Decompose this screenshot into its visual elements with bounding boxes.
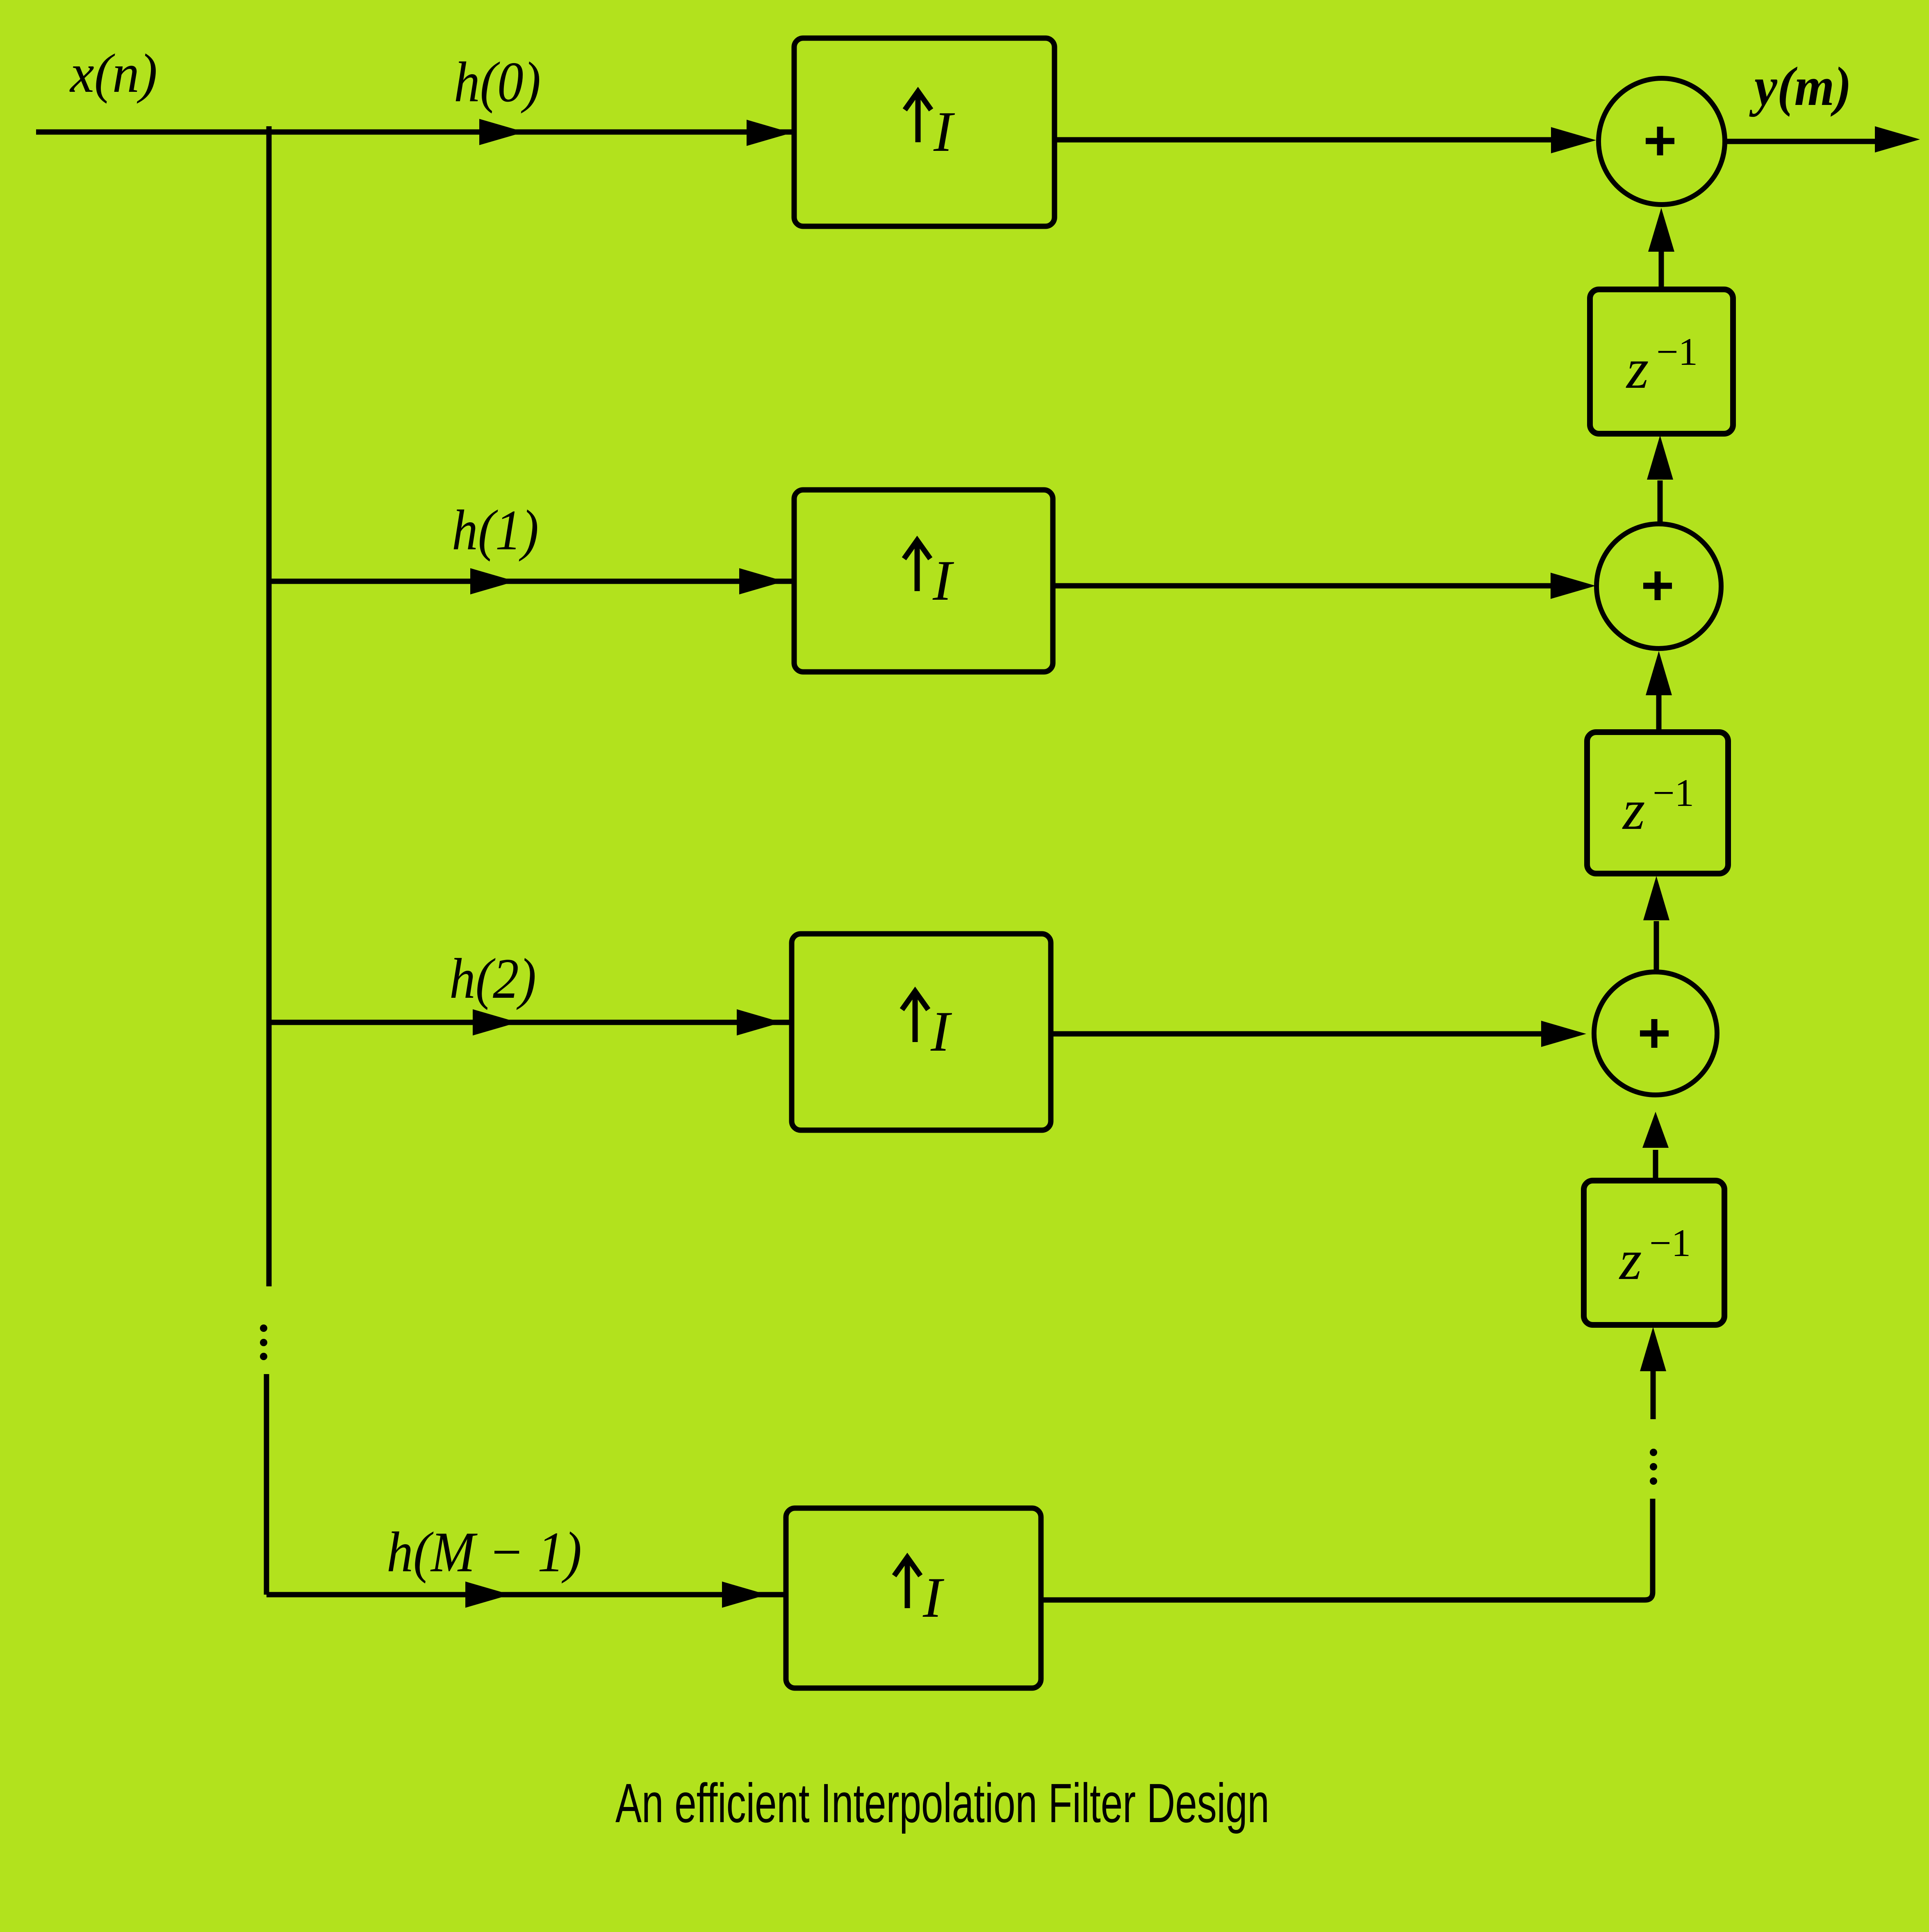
wire arrowhead into S3 bottom [1642, 1112, 1669, 1148]
node branch junction [266, 126, 272, 135]
wire row2 output [1051, 1031, 1542, 1037]
wire arrow z1 to S1 [1659, 251, 1664, 289]
svg-text:z: z [1622, 778, 1645, 842]
summer S2 [1596, 524, 1721, 649]
wire arrow S2 to z1 [1658, 480, 1663, 524]
svg-text:z: z [1626, 337, 1649, 401]
svg-text:I: I [932, 549, 954, 612]
wire row4 input [266, 1592, 786, 1597]
wire bottom right corner [1041, 1499, 1653, 1600]
wire arrowhead into z1 bottom [1647, 435, 1673, 480]
wire left branch vertical lower [264, 1374, 269, 1595]
wire row1 arrowhead at box [739, 568, 784, 594]
wire row2 arrowhead at box [737, 1009, 782, 1035]
summer S1 [1599, 78, 1725, 205]
wire arrowhead into sum S3 [1541, 1021, 1586, 1047]
wire left branch vertical upper [266, 132, 272, 1286]
wire row0 arrowhead at box [747, 120, 792, 146]
wire arrow S3 to z2 [1654, 921, 1659, 972]
summer S2 plus sign [1643, 571, 1672, 600]
svg-text:x(n): x(n) [69, 43, 157, 104]
svg-text:y(m): y(m) [1749, 56, 1852, 117]
upsampler block I2 [794, 490, 1053, 672]
node left ellipsis dots [260, 1324, 267, 1332]
wire arrowhead into sum S1 [1551, 127, 1596, 153]
wire row1 arrowhead mid [470, 568, 515, 594]
wire arrow z2 to S2 [1656, 694, 1662, 732]
svg-text:−1: −1 [1656, 330, 1698, 373]
summer S3 plus sign [1640, 1019, 1669, 1048]
svg-text:h(M − 1): h(M − 1) [387, 1520, 582, 1584]
svg-text:I: I [930, 1000, 952, 1063]
wire row0 output [1054, 137, 1554, 143]
delay block Z2 [1587, 732, 1728, 874]
wire row4 arrowhead mid [465, 1582, 510, 1608]
wire row2 input [269, 1020, 792, 1025]
wire row2 arrowhead mid [473, 1009, 518, 1035]
wire row4 arrowhead at box [722, 1582, 767, 1608]
wire arrowhead into S1 bottom [1648, 208, 1674, 252]
wire arrow z3 to S3 [1653, 1150, 1658, 1181]
wire arrowhead into z3 bottom [1640, 1327, 1666, 1371]
wire row1 output [1053, 583, 1551, 589]
summer S3 [1594, 972, 1717, 1095]
summer S1 plus sign [1646, 127, 1674, 155]
wire row0 arrowhead mid [479, 119, 524, 145]
wire output arrowhead y(m) [1875, 126, 1920, 152]
svg-text:h(2): h(2) [449, 947, 536, 1010]
node right ellipsis dots [1650, 1449, 1657, 1456]
svg-text:z: z [1619, 1228, 1642, 1292]
delay block Z1 [1590, 289, 1733, 434]
upsampler block I4 [786, 1508, 1041, 1688]
upsampler block I1 [794, 38, 1054, 226]
svg-text:−1: −1 [1653, 771, 1694, 815]
svg-text:−1: −1 [1649, 1221, 1691, 1265]
wire arrowhead into S2 bottom [1646, 651, 1672, 695]
svg-text:I: I [933, 100, 955, 164]
wire output of S1 [1725, 139, 1878, 144]
upsampler block I3 [792, 934, 1051, 1130]
wire arrow into z3 from below [1651, 1371, 1656, 1419]
delay block Z3 [1584, 1181, 1724, 1325]
wire row1 input [269, 579, 794, 584]
svg-text:I: I [922, 1566, 945, 1629]
wire arrowhead into z2 bottom [1643, 876, 1669, 920]
svg-text:h(0): h(0) [454, 50, 541, 114]
wire arrowhead into sum S2 [1551, 573, 1596, 599]
svg-text:An efficient Interpolation Fil: An efficient Interpolation Filter Design [615, 1772, 1269, 1834]
svg-text:h(1): h(1) [452, 498, 539, 562]
wire main input horizontal [36, 130, 794, 135]
